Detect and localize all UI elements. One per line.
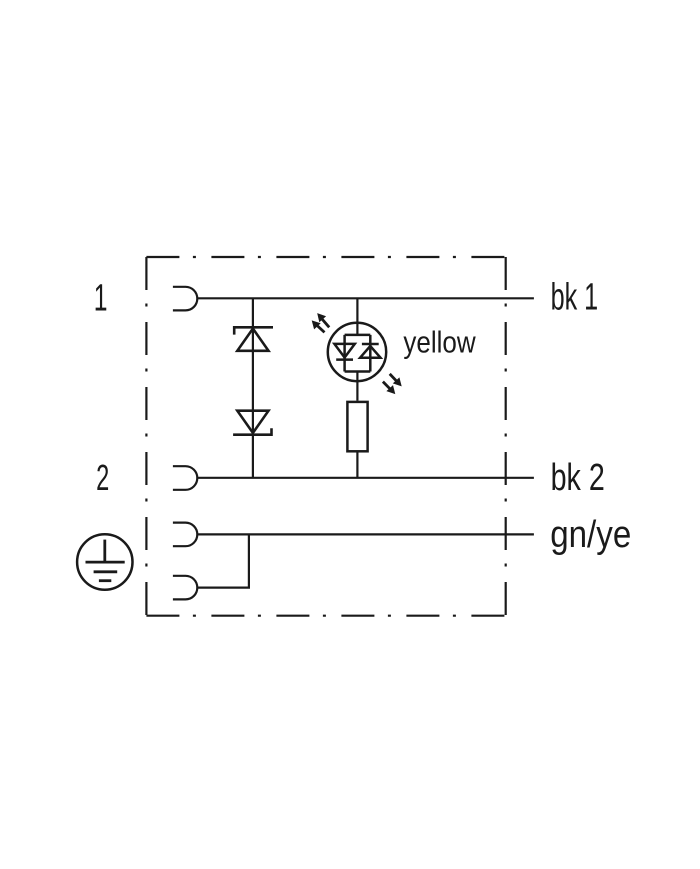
label yellow — [403, 325, 476, 360]
wire bk1 (pin 1 to terminal) — [197, 297, 534, 299]
LED U1 right chip (cathode up) — [360, 344, 380, 358]
wire gn/ye (upper ground pin to terminal) — [197, 533, 534, 535]
LED U1 circle outline — [328, 323, 386, 381]
LED U1 left chip (cathode down) — [334, 344, 354, 360]
wire left branch (suppressor branch) — [252, 298, 254, 478]
wire lower ground pin link — [197, 534, 249, 587]
svg-text:gn/ye: gn/ye — [550, 513, 631, 556]
svg-text:2: 2 — [96, 458, 109, 498]
LED light arrows lower-right — [383, 374, 402, 394]
svg-text:yellow: yellow — [403, 325, 476, 360]
resistor R1 — [347, 402, 367, 451]
zener diode D1 (upper, cathode up) — [234, 327, 273, 351]
protective earth symbol — [77, 534, 132, 589]
label bk 2 — [551, 457, 605, 499]
wire bk2 (pin 2 to terminal) — [197, 477, 534, 479]
label bk 1 — [551, 275, 599, 317]
LED U1 inner bridge rails — [345, 335, 371, 372]
svg-text:bk 2: bk 2 — [551, 457, 605, 499]
wire LED branch top — [356, 298, 358, 335]
LED light arrows upper-left — [312, 313, 330, 332]
wire resistor to bk2 — [356, 453, 358, 478]
ground pin lower contact symbol — [173, 576, 197, 600]
label gn/ye — [550, 513, 631, 556]
svg-text:bk 1: bk 1 — [551, 275, 599, 317]
wire LED to resistor — [356, 372, 358, 401]
ground pin upper contact symbol — [173, 523, 197, 547]
pin 2 contact symbol — [173, 466, 197, 490]
pin 1 label — [94, 276, 108, 319]
pin 1 contact symbol — [173, 287, 197, 311]
connector housing dash-dot border — [146, 257, 505, 616]
zener diode D2 (lower, cathode down) — [233, 411, 271, 435]
svg-text:1: 1 — [94, 276, 108, 319]
pin 2 label — [96, 458, 109, 498]
